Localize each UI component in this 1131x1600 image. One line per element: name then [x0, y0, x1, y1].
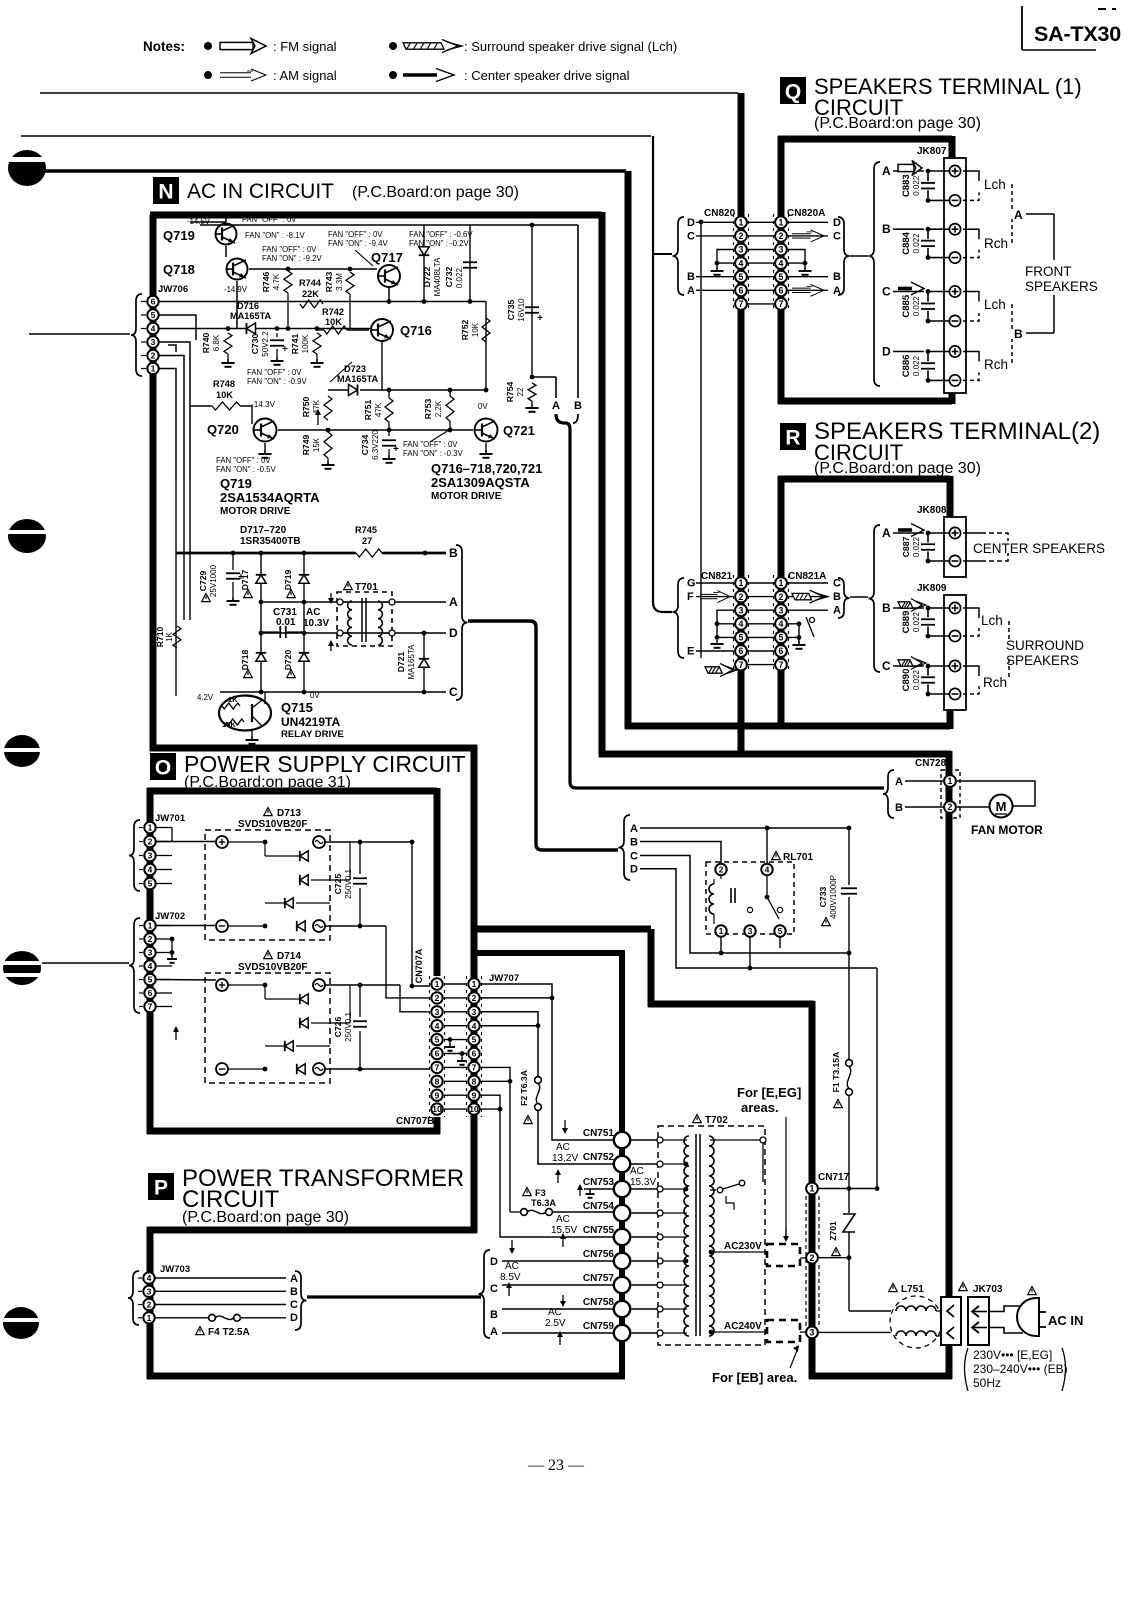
svg-text:5: 5	[472, 1035, 477, 1045]
svg-text:3: 3	[148, 948, 153, 958]
svg-text:2: 2	[435, 993, 440, 1003]
svg-text:B: B	[490, 1309, 498, 1321]
svg-text:: Surround speaker drive signa: : Surround speaker drive signal (Lch)	[464, 39, 677, 54]
svg-text:R745: R745	[355, 525, 377, 535]
svg-text:100K: 100K	[301, 334, 310, 353]
svg-text:6: 6	[739, 285, 744, 295]
svg-text:Lch: Lch	[984, 177, 1006, 192]
svg-text:D721: D721	[396, 652, 406, 673]
svg-text:A: A	[290, 1273, 298, 1285]
svg-text:2: 2	[948, 802, 953, 812]
svg-text:9: 9	[472, 1090, 477, 1100]
svg-text:5: 5	[148, 879, 153, 889]
svg-text:0V: 0V	[478, 402, 488, 411]
svg-text:A: A	[630, 823, 638, 835]
svg-text:CN757: CN757	[583, 1273, 615, 1284]
svg-text:CN751: CN751	[583, 1128, 615, 1139]
svg-text:D714: D714	[277, 951, 301, 962]
svg-text:7: 7	[779, 299, 784, 309]
svg-text:AC: AC	[556, 1214, 570, 1225]
svg-text:Z701: Z701	[828, 1221, 838, 1241]
svg-text:D713: D713	[277, 808, 301, 819]
svg-text:B: B	[882, 222, 891, 236]
svg-text:AC: AC	[505, 1261, 519, 1272]
svg-text:MA408LTA: MA408LTA	[433, 257, 442, 296]
svg-text:4: 4	[148, 865, 153, 875]
svg-text:A: A	[895, 776, 903, 788]
svg-text:-14.3V: -14.3V	[251, 400, 276, 409]
svg-text:(P.C.Board:on page 31): (P.C.Board:on page 31)	[184, 774, 351, 791]
svg-text:3: 3	[148, 851, 153, 861]
svg-text:AC240V: AC240V	[724, 1321, 762, 1332]
svg-text:2: 2	[739, 592, 744, 602]
svg-text:RELAY DRIVE: RELAY DRIVE	[281, 729, 344, 740]
svg-text:6: 6	[151, 297, 156, 307]
svg-text:C729: C729	[198, 571, 208, 592]
svg-text:4: 4	[779, 619, 784, 629]
svg-text:: FM signal: : FM signal	[273, 39, 337, 54]
svg-text:AC: AC	[306, 607, 320, 618]
svg-text:8: 8	[472, 1076, 477, 1086]
svg-text:D719: D719	[283, 570, 293, 591]
svg-text:2: 2	[151, 351, 156, 361]
svg-text:AC: AC	[630, 1166, 644, 1177]
svg-text:3: 3	[147, 1286, 152, 1296]
svg-text:JW702: JW702	[155, 911, 185, 922]
svg-text:AC IN CIRCUIT: AC IN CIRCUIT	[187, 180, 334, 203]
svg-text:FAN "OFF" : 0V: FAN "OFF" : 0V	[247, 368, 302, 377]
svg-text:7: 7	[739, 299, 744, 309]
svg-text:RL701: RL701	[783, 852, 813, 863]
svg-text:22K: 22K	[302, 289, 319, 299]
svg-text:C: C	[449, 685, 458, 699]
svg-text:CN821: CN821	[701, 571, 733, 582]
svg-text:FAN "ON" : -0.5V: FAN "ON" : -0.5V	[216, 465, 276, 474]
svg-text:CN754: CN754	[583, 1201, 615, 1212]
svg-text:3: 3	[810, 1328, 815, 1338]
svg-text:C: C	[833, 578, 841, 590]
svg-text:1: 1	[739, 578, 744, 588]
svg-text:D: D	[833, 217, 841, 229]
svg-text:FAN MOTOR: FAN MOTOR	[971, 823, 1043, 837]
svg-text:4: 4	[779, 258, 784, 268]
svg-text:A: A	[1014, 208, 1023, 222]
svg-text:R754: R754	[505, 382, 515, 403]
svg-text:1: 1	[779, 217, 784, 227]
svg-text:Rch: Rch	[984, 236, 1008, 251]
svg-text:+: +	[282, 344, 288, 355]
svg-text:R740: R740	[201, 333, 211, 354]
svg-text:50V2.2: 50V2.2	[261, 331, 270, 357]
svg-text:3: 3	[151, 337, 156, 347]
svg-text:27: 27	[362, 536, 372, 546]
svg-text:250V0.1: 250V0.1	[344, 1012, 353, 1042]
svg-text:Notes:: Notes:	[143, 39, 185, 54]
svg-text:9: 9	[435, 1090, 440, 1100]
svg-text:CN707A: CN707A	[414, 948, 424, 983]
svg-text:For [E,EG]: For [E,EG]	[737, 1085, 801, 1100]
svg-text:-14.9V: -14.9V	[224, 285, 248, 294]
svg-text:A: A	[833, 605, 841, 617]
svg-text:0.022: 0.022	[912, 611, 921, 632]
svg-text:D: D	[490, 1256, 498, 1268]
svg-text:6: 6	[435, 1049, 440, 1059]
svg-text:R753: R753	[423, 399, 433, 420]
svg-text:JW707: JW707	[489, 973, 519, 984]
svg-text:1: 1	[151, 364, 156, 374]
svg-text:F2 T6.3A: F2 T6.3A	[519, 1070, 529, 1106]
svg-text:FRONT: FRONT	[1025, 264, 1072, 279]
svg-text:CN759: CN759	[583, 1321, 615, 1332]
svg-text:A: A	[490, 1326, 498, 1338]
svg-text:3.3M: 3.3M	[335, 273, 344, 291]
svg-text:R742: R742	[322, 307, 344, 317]
svg-text:230V••• [E,EG]: 230V••• [E,EG]	[973, 1348, 1052, 1362]
svg-text:10: 10	[469, 1104, 479, 1114]
svg-text:JW701: JW701	[155, 813, 186, 824]
svg-text:Q721: Q721	[503, 423, 535, 438]
svg-text:4.7K: 4.7K	[272, 273, 281, 290]
svg-text:1: 1	[435, 979, 440, 989]
svg-text:Q720: Q720	[207, 422, 239, 437]
svg-text:B: B	[290, 1286, 298, 1298]
svg-text:2SA1309AQSTA: 2SA1309AQSTA	[431, 475, 530, 490]
svg-text:22: 22	[516, 387, 525, 396]
svg-text:2: 2	[472, 993, 477, 1003]
svg-text:UN4219TA: UN4219TA	[281, 715, 340, 729]
svg-text:A: A	[882, 164, 891, 178]
svg-text:0.022: 0.022	[912, 175, 921, 196]
svg-text:C889: C889	[901, 611, 912, 634]
svg-text:1K: 1K	[228, 695, 238, 704]
svg-text:Q716: Q716	[400, 323, 432, 338]
svg-text:A: A	[882, 526, 891, 540]
svg-text:6.8K: 6.8K	[212, 334, 221, 351]
svg-text:(P.C.Board:on page 30): (P.C.Board:on page 30)	[814, 115, 981, 132]
svg-text:10K: 10K	[325, 317, 342, 327]
svg-text:0.022: 0.022	[912, 355, 921, 376]
svg-text:D716: D716	[237, 301, 259, 311]
svg-text:R: R	[785, 427, 800, 450]
svg-text:SVDS10VB20F: SVDS10VB20F	[238, 819, 307, 830]
svg-text:areas.: areas.	[741, 1100, 779, 1115]
svg-text:R743: R743	[324, 272, 334, 293]
svg-text:D: D	[630, 864, 638, 876]
svg-text:10.3V: 10.3V	[303, 618, 329, 629]
svg-text:CN820: CN820	[704, 208, 736, 219]
svg-text:2: 2	[779, 592, 784, 602]
svg-text:16V10: 16V10	[517, 298, 526, 322]
svg-text:R749: R749	[301, 435, 311, 456]
svg-text:3: 3	[779, 245, 784, 255]
svg-text:D722: D722	[422, 267, 432, 288]
svg-text:250V0.1: 250V0.1	[344, 869, 353, 899]
svg-text:F: F	[687, 591, 694, 603]
svg-text:B: B	[1014, 327, 1023, 341]
svg-text:1SR35400TB: 1SR35400TB	[240, 536, 301, 547]
svg-text:For [EB] area.: For [EB] area.	[712, 1370, 797, 1385]
svg-text:C: C	[630, 850, 638, 862]
svg-text:C732: C732	[444, 267, 454, 288]
svg-text:D720: D720	[283, 650, 293, 671]
svg-text:AC IN: AC IN	[1048, 1313, 1083, 1328]
svg-text:1: 1	[148, 823, 153, 833]
svg-text:C883: C883	[901, 174, 912, 197]
svg-text:15K: 15K	[222, 720, 236, 729]
svg-text:C884: C884	[901, 231, 912, 254]
svg-text:R710: R710	[155, 627, 165, 648]
svg-text:CN753: CN753	[583, 1177, 615, 1188]
svg-text:2.2K: 2.2K	[434, 400, 443, 417]
svg-text:5: 5	[778, 926, 783, 936]
svg-text:6: 6	[472, 1049, 477, 1059]
svg-text:2: 2	[810, 1253, 815, 1263]
svg-text:3: 3	[739, 605, 744, 615]
svg-text:2: 2	[739, 231, 744, 241]
svg-text:4: 4	[147, 1273, 152, 1283]
svg-text:O: O	[155, 757, 171, 780]
svg-text:6: 6	[739, 646, 744, 656]
svg-text:6.3V220: 6.3V220	[371, 430, 380, 460]
svg-text:— 23 —: — 23 —	[527, 1457, 585, 1474]
svg-text:6: 6	[779, 646, 784, 656]
svg-text:F1 T3.15A: F1 T3.15A	[831, 1052, 841, 1093]
svg-text:1: 1	[147, 1313, 152, 1323]
svg-text:CN756: CN756	[583, 1249, 615, 1260]
svg-text:3: 3	[739, 245, 744, 255]
svg-text:7: 7	[148, 1002, 153, 1012]
svg-text:7: 7	[435, 1062, 440, 1072]
svg-text:AC230V: AC230V	[724, 1241, 762, 1252]
svg-text:B: B	[895, 802, 903, 814]
svg-text:+: +	[537, 313, 543, 324]
svg-text:C730: C730	[250, 334, 260, 355]
svg-text:10: 10	[432, 1104, 442, 1114]
svg-text:JK809: JK809	[917, 583, 947, 594]
svg-text:FAN "ON" : -9.4V: FAN "ON" : -9.4V	[328, 239, 388, 248]
svg-text:400V/1000P: 400V/1000P	[829, 875, 838, 919]
svg-text:FAN "OFF" : -0.6V: FAN "OFF" : -0.6V	[409, 230, 473, 239]
svg-text:CN752: CN752	[583, 1152, 615, 1163]
svg-text:Lch: Lch	[984, 297, 1006, 312]
svg-text:C885: C885	[901, 294, 912, 317]
svg-text:0.022.: 0.022.	[455, 266, 464, 288]
svg-text:B: B	[833, 591, 841, 603]
svg-text:7: 7	[739, 660, 744, 670]
svg-text:C735: C735	[506, 300, 516, 321]
svg-text:+: +	[238, 572, 244, 583]
svg-text:13.2V: 13.2V	[552, 1153, 578, 1164]
svg-text:B: B	[630, 836, 638, 848]
svg-text:7: 7	[779, 660, 784, 670]
svg-text:B: B	[687, 271, 695, 283]
svg-text:C: C	[490, 1283, 498, 1295]
svg-text:1: 1	[148, 921, 153, 931]
svg-text:P: P	[154, 1177, 168, 1200]
svg-text:R748: R748	[213, 379, 235, 389]
svg-text:4: 4	[739, 619, 744, 629]
svg-text:FAN "OFF" : 0V: FAN "OFF" : 0V	[328, 230, 383, 239]
svg-text:4.2V: 4.2V	[197, 693, 214, 702]
svg-text:MA165TA: MA165TA	[230, 311, 272, 321]
svg-text:1: 1	[948, 776, 953, 786]
svg-text:SURROUND: SURROUND	[1006, 638, 1084, 653]
svg-text:(P.C.Board:on page 30): (P.C.Board:on page 30)	[352, 184, 519, 201]
svg-text:1: 1	[472, 979, 477, 989]
svg-text:6: 6	[148, 988, 153, 998]
svg-text:C: C	[882, 659, 891, 673]
svg-text:5: 5	[779, 633, 784, 643]
svg-text:5: 5	[739, 272, 744, 282]
svg-text:50Hz: 50Hz	[973, 1376, 1001, 1390]
svg-text:MOTOR DRIVE: MOTOR DRIVE	[220, 506, 291, 517]
svg-text:B: B	[449, 546, 458, 560]
svg-text:C726: C726	[333, 1017, 343, 1038]
svg-text:8: 8	[435, 1076, 440, 1086]
svg-text:1: 1	[719, 926, 724, 936]
svg-text:+: +	[393, 444, 399, 455]
svg-text:JW706: JW706	[158, 284, 188, 295]
svg-text:CN707B: CN707B	[396, 1116, 434, 1127]
svg-text:4: 4	[472, 1021, 477, 1031]
svg-text:R752: R752	[460, 320, 470, 341]
svg-text:N: N	[158, 181, 173, 204]
svg-text:: AM signal: : AM signal	[273, 68, 337, 83]
svg-text:2: 2	[779, 231, 784, 241]
svg-text:MOTOR DRIVE: MOTOR DRIVE	[431, 491, 502, 502]
svg-text:1: 1	[779, 578, 784, 588]
svg-text:Q: Q	[785, 81, 801, 104]
svg-text:F4 T2.5A: F4 T2.5A	[208, 1327, 250, 1338]
svg-text:D: D	[290, 1312, 298, 1324]
svg-text:1: 1	[739, 217, 744, 227]
svg-text:CN758: CN758	[583, 1297, 615, 1308]
svg-text:Rch: Rch	[984, 357, 1008, 372]
svg-text:D: D	[687, 217, 695, 229]
svg-text:7: 7	[472, 1062, 477, 1072]
svg-text:4: 4	[765, 865, 770, 875]
svg-text:D717–720: D717–720	[240, 525, 287, 536]
svg-text:Lch: Lch	[981, 613, 1003, 628]
svg-text:Q719: Q719	[220, 476, 252, 491]
svg-text:MA165TA: MA165TA	[407, 644, 416, 680]
svg-text:B: B	[574, 400, 582, 412]
svg-text:4: 4	[148, 961, 153, 971]
svg-text:5: 5	[779, 272, 784, 282]
svg-text:47K: 47K	[374, 402, 383, 417]
svg-text:6: 6	[779, 285, 784, 295]
svg-text:Q715: Q715	[281, 700, 313, 715]
svg-text:C890: C890	[901, 669, 912, 692]
svg-text:15.3V: 15.3V	[630, 1177, 656, 1188]
svg-text:Q716–718,720,721: Q716–718,720,721	[431, 461, 542, 476]
svg-text:CN820A: CN820A	[787, 208, 825, 219]
svg-text:JW703: JW703	[160, 1264, 190, 1275]
svg-text:C886: C886	[901, 355, 912, 378]
svg-text:0.022: 0.022	[912, 536, 921, 557]
svg-text:25V1000: 25V1000	[209, 564, 218, 597]
svg-text:C: C	[687, 230, 695, 242]
svg-text:C887: C887	[901, 537, 911, 558]
svg-text:3: 3	[748, 926, 753, 936]
svg-text:3: 3	[779, 605, 784, 615]
svg-text:F3: F3	[535, 1188, 546, 1198]
svg-text:C: C	[833, 230, 841, 242]
svg-text:E: E	[687, 646, 694, 658]
svg-text:(P.C.Board:on page 30): (P.C.Board:on page 30)	[182, 1209, 349, 1226]
svg-text:4: 4	[739, 258, 744, 268]
svg-text:2: 2	[148, 837, 153, 847]
svg-text:Q719: Q719	[163, 228, 195, 243]
svg-text:B: B	[882, 601, 891, 615]
svg-text:FAN "ON" : -0.9V: FAN "ON" : -0.9V	[247, 377, 307, 386]
svg-text:15.5V: 15.5V	[551, 1225, 577, 1236]
svg-text:C: C	[882, 285, 891, 299]
svg-text:CN755: CN755	[583, 1225, 615, 1236]
svg-text:R744: R744	[299, 278, 322, 288]
svg-text:D718: D718	[240, 650, 250, 671]
svg-text:(P.C.Board:on page 30): (P.C.Board:on page 30)	[814, 460, 981, 477]
svg-text:2: 2	[147, 1300, 152, 1310]
svg-text:L751: L751	[901, 1284, 924, 1295]
svg-text:FAN "ON" : -9.2V: FAN "ON" : -9.2V	[262, 254, 322, 263]
svg-text:5: 5	[435, 1035, 440, 1045]
svg-text:10K: 10K	[216, 390, 233, 400]
svg-text:15K: 15K	[312, 437, 321, 452]
svg-text:Q718: Q718	[163, 262, 195, 277]
svg-text:A: A	[449, 595, 458, 609]
svg-text:0.022: 0.022	[912, 669, 921, 690]
svg-text:R746: R746	[261, 272, 271, 293]
svg-text:CENTER SPEAKERS: CENTER SPEAKERS	[973, 541, 1105, 556]
svg-text:CN728: CN728	[915, 758, 947, 769]
svg-text:Q717: Q717	[371, 250, 403, 265]
svg-text:R750: R750	[301, 397, 311, 418]
svg-text:2.5V: 2.5V	[545, 1318, 566, 1329]
svg-text:5: 5	[148, 975, 153, 985]
svg-text:2: 2	[148, 934, 153, 944]
svg-text:C725: C725	[333, 874, 343, 895]
svg-text:D: D	[882, 345, 891, 359]
svg-text:T701: T701	[355, 582, 378, 593]
svg-text:2SA1534AQRTA: 2SA1534AQRTA	[220, 490, 320, 505]
svg-text:FAN "ON" : -0.3V: FAN "ON" : -0.3V	[403, 449, 463, 458]
svg-text:10K: 10K	[471, 322, 480, 337]
svg-text:4: 4	[151, 324, 156, 334]
svg-text:Rch: Rch	[983, 675, 1007, 690]
svg-text:D723: D723	[344, 364, 366, 374]
svg-text:2: 2	[719, 865, 724, 875]
svg-text:T702: T702	[705, 1115, 728, 1126]
svg-text:B: B	[833, 271, 841, 283]
svg-text:4: 4	[435, 1021, 440, 1031]
svg-text:MA165TA: MA165TA	[337, 374, 379, 384]
svg-text:5: 5	[151, 310, 156, 320]
svg-text:FAN "ON" : -8.1V: FAN "ON" : -8.1V	[245, 231, 305, 240]
svg-text:1K: 1K	[165, 631, 174, 641]
svg-text:D: D	[449, 626, 458, 640]
svg-text:8.5V: 8.5V	[500, 1272, 521, 1283]
svg-text:0.022: 0.022	[912, 296, 921, 317]
svg-text:M: M	[996, 799, 1007, 814]
svg-text:CN821A: CN821A	[788, 571, 826, 582]
svg-text:G: G	[687, 578, 696, 590]
svg-text:3: 3	[435, 1007, 440, 1017]
svg-text:230–240V••• (EB): 230–240V••• (EB)	[973, 1362, 1068, 1376]
svg-text:47K: 47K	[312, 399, 321, 414]
svg-text:A: A	[687, 285, 695, 297]
svg-text:1: 1	[810, 1184, 815, 1194]
